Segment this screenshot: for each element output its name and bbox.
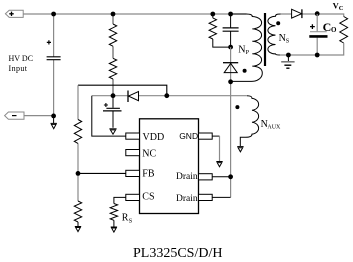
caption PL3325CS/D/H xyxy=(133,246,222,261)
wire CS to Rs xyxy=(114,197,126,203)
ground GND7 ic xyxy=(216,162,222,167)
minus sign in J2 xyxy=(12,115,17,117)
transformer winding Naux xyxy=(240,96,258,146)
svg-text:NC: NC xyxy=(142,149,156,160)
resistor R3 fb upper xyxy=(74,120,81,144)
pin CS stub xyxy=(126,194,140,200)
label Np xyxy=(238,44,249,56)
svg-text:Input: Input xyxy=(9,64,28,73)
pin GND stub xyxy=(199,133,213,139)
resistor Rs sense xyxy=(110,204,117,221)
svg-text:P: P xyxy=(246,49,250,56)
pin FB stub xyxy=(126,170,140,176)
label Naux xyxy=(261,119,281,130)
wire left column xyxy=(77,85,79,201)
phase dot Naux xyxy=(235,105,239,109)
svg-text:AUX: AUX xyxy=(267,124,281,130)
svg-text:O: O xyxy=(331,26,337,34)
wire VDD elbow xyxy=(92,96,126,136)
wire Drain2 xyxy=(212,196,230,198)
wire GND pin net xyxy=(212,135,219,137)
phase dot Ns xyxy=(276,21,280,25)
resistor R4 fb lower xyxy=(74,201,81,222)
svg-text:CS: CS xyxy=(142,191,154,202)
node minus junction xyxy=(51,114,56,119)
node drain junction xyxy=(228,174,233,179)
plus sign C2 xyxy=(104,103,108,107)
svg-text:Drain: Drain xyxy=(176,172,198,182)
wire minus rail xyxy=(24,115,54,117)
wire input cap stems xyxy=(53,14,55,116)
label FB xyxy=(142,169,155,180)
capacitor C3 snubber xyxy=(230,14,232,47)
ground GND3 below C2 xyxy=(109,129,116,134)
capacitor Co output xyxy=(316,14,318,55)
pin Drain1 stub xyxy=(199,174,213,180)
node clamp Np junction xyxy=(228,79,233,84)
wire secondary top xyxy=(281,14,344,17)
ground GND5 below Naux xyxy=(237,147,243,152)
resistor R5 snubber xyxy=(209,18,216,39)
node Co bottom xyxy=(315,53,320,58)
svg-text:N: N xyxy=(238,44,245,55)
ground GND4 secondary earth xyxy=(281,55,294,68)
capacitor C1 input bulk xyxy=(47,57,61,60)
wire FB net xyxy=(78,172,126,174)
pin Drain2 stub xyxy=(199,194,213,200)
label GND xyxy=(179,131,198,141)
resistor R2 startup lower xyxy=(109,58,116,79)
resistor R6 load xyxy=(340,17,348,44)
wire snubber R stems xyxy=(213,14,231,47)
svg-text:VDD: VDD xyxy=(143,132,165,143)
resistor R1 startup upper xyxy=(109,24,116,46)
wire drain vertical xyxy=(230,47,232,197)
label Drain pin3 xyxy=(176,194,198,204)
node ground tap secondary xyxy=(286,53,291,58)
ground GND6 below Rs xyxy=(111,220,117,232)
capacitor C2 vdd decoupling xyxy=(112,96,114,128)
ground GND2 below R4 xyxy=(75,222,81,232)
wire line B vdd net xyxy=(92,95,247,97)
transformer core xyxy=(264,13,266,66)
svg-text:S: S xyxy=(286,38,290,45)
wire secondary bottom xyxy=(280,43,344,55)
transformer winding Np xyxy=(231,14,263,81)
label VDD xyxy=(143,132,165,143)
node top rail snubber R xyxy=(210,12,215,17)
node FB junction xyxy=(76,171,81,176)
node top rail cap xyxy=(51,12,56,17)
transformer winding Ns xyxy=(268,14,281,55)
svg-text:PL3325CS/D/H: PL3325CS/D/H xyxy=(133,246,222,261)
label Vc xyxy=(333,1,344,12)
node output rail xyxy=(315,11,320,16)
wire Drain1 xyxy=(212,176,230,178)
node line A-B junction xyxy=(164,93,169,98)
label Ns xyxy=(279,33,290,45)
svg-text:FB: FB xyxy=(142,169,155,180)
ground GND1 below minus rail xyxy=(51,116,57,129)
label Drain pin2 xyxy=(176,172,198,182)
connector J1 plus input xyxy=(5,10,23,17)
pin VDD stub xyxy=(126,133,140,139)
plus sign Co xyxy=(310,24,315,29)
node top rail snubber C xyxy=(228,12,233,17)
node top rail startup xyxy=(111,12,116,17)
diode D2 clamp xyxy=(223,63,238,73)
svg-text:GND: GND xyxy=(179,131,198,141)
svg-text:C: C xyxy=(339,5,344,12)
diode D3 output xyxy=(292,9,302,18)
wire startup column xyxy=(112,14,114,96)
pin NC stub xyxy=(126,150,140,156)
phase dot Np xyxy=(243,69,247,73)
svg-text:Drain: Drain xyxy=(176,194,198,204)
label Co xyxy=(323,20,337,34)
label CS xyxy=(142,191,154,202)
svg-text:HV DC: HV DC xyxy=(9,54,34,63)
node snubber junction xyxy=(228,45,233,50)
IC U1 PL3325 xyxy=(140,119,199,214)
svg-text:C: C xyxy=(323,20,332,34)
connector J2 minus input xyxy=(5,112,24,119)
node vdd cap junction xyxy=(111,93,116,98)
plus sign C1 xyxy=(47,40,51,44)
plus sign in J1 xyxy=(9,12,13,16)
wire line A FB sense xyxy=(78,85,167,96)
label NC xyxy=(142,149,156,160)
label Rs xyxy=(122,213,133,225)
diode D1 startup xyxy=(128,91,139,103)
wire top rail xyxy=(23,13,246,15)
label HV DC Input xyxy=(9,54,34,73)
svg-text:S: S xyxy=(129,217,133,224)
